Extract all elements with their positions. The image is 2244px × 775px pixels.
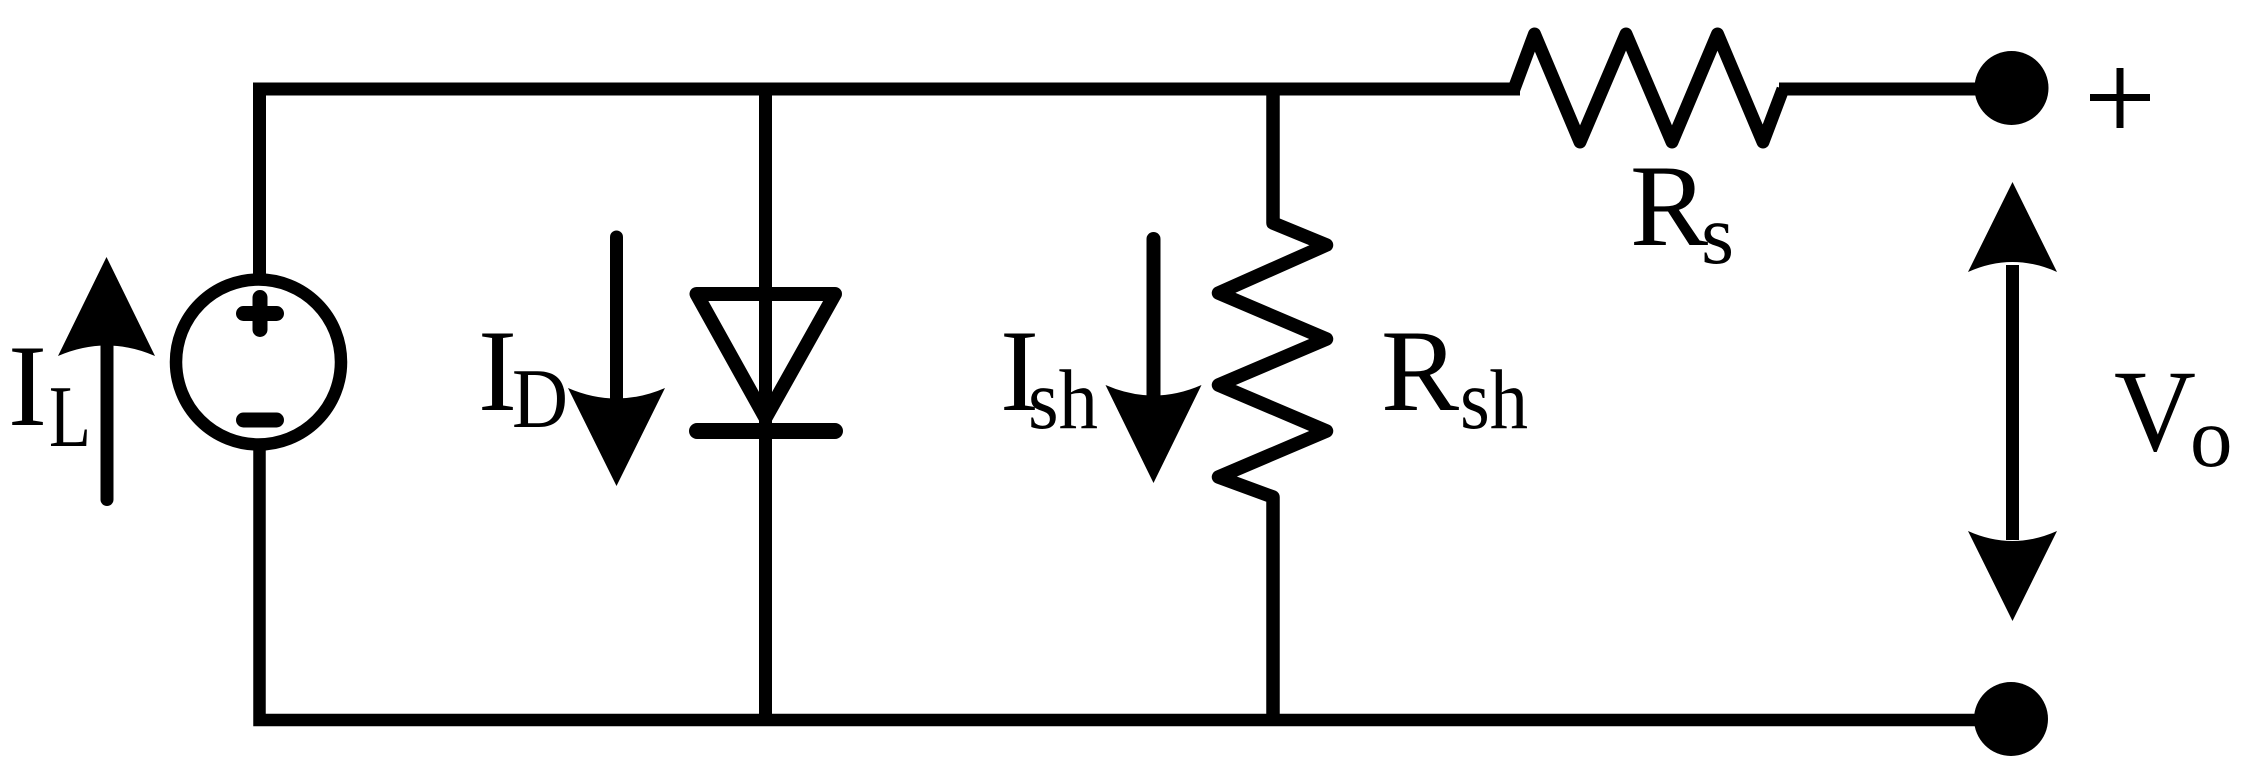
wire: left vertical (top half) + top bus wire — [260, 89, 1521, 275]
arrow ID head — [568, 388, 665, 486]
wire: diode branch vertical — [759, 89, 772, 720]
current source minus mark — [244, 413, 277, 428]
svg-text:L: L — [49, 369, 91, 466]
svg-text:sh: sh — [1028, 353, 1098, 447]
arrow ID shaft — [610, 237, 623, 400]
resistor Rs zigzag — [1514, 34, 1783, 142]
arrow Vo bottom head — [1968, 531, 2057, 621]
arrow IL shaft — [101, 345, 114, 500]
current source plus mark — [244, 298, 277, 330]
svg-text:sh: sh — [1460, 353, 1528, 447]
arrow Vo top head — [1968, 182, 2057, 272]
arrow Ish head — [1106, 385, 1202, 483]
svg-text:R: R — [1381, 307, 1459, 436]
svg-text:R: R — [1630, 142, 1708, 271]
arrow IL head — [58, 257, 155, 356]
wire: shunt branch vertical stubs + resistor Rsh zigzag — [1219, 89, 1327, 720]
node: negative output terminal dot — [1974, 682, 2048, 756]
arrow Vo shaft — [2006, 265, 2019, 540]
plus sign at output — [2090, 68, 2150, 128]
svg-text:V: V — [2114, 347, 2196, 476]
diode D1 triangle — [697, 294, 836, 418]
wire: Rs to positive terminal — [1779, 83, 2011, 96]
svg-text:s: s — [1701, 188, 1734, 282]
wire: left vertical (bottom half) + bottom bus wire — [260, 449, 2012, 720]
diode D1 cathode bar — [697, 423, 835, 439]
svg-text:o: o — [2190, 391, 2233, 485]
arrow Ish shaft — [1147, 239, 1161, 395]
svg-text:I: I — [8, 322, 47, 451]
node: positive output terminal dot — [1975, 51, 2049, 125]
current source IL (circle) — [176, 280, 341, 445]
svg-text:D: D — [512, 352, 568, 446]
